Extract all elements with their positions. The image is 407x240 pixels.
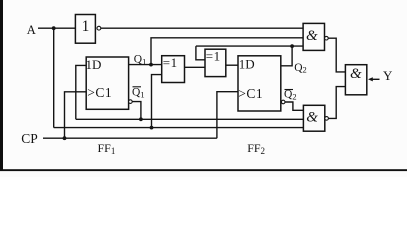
- and gate G6 box: [345, 65, 366, 95]
- svg-text:=1: =1: [163, 55, 178, 70]
- wire CP input: [43, 137, 217, 139]
- wire A branch up to XOR1 input: [152, 75, 162, 128]
- svg-text:Y: Y: [383, 68, 393, 83]
- label Q1-bar overline: [133, 86, 142, 88]
- wire inverter output A-bar to AND1: [101, 27, 303, 29]
- wire Q1 output to XOR1: [129, 64, 162, 66]
- flip-flop FF1 box: [86, 57, 128, 109]
- wire Q2-bar output to AND2: [285, 102, 303, 110]
- nand gate G4 box: [303, 23, 324, 50]
- svg-text:&: &: [350, 66, 362, 82]
- node CP junction: [63, 136, 67, 140]
- wire FF1 D input from Q1-bar bus: [76, 65, 86, 119]
- node A branch junction: [150, 126, 154, 130]
- wire Y output arrowhead: [368, 77, 373, 81]
- svg-text:&: &: [306, 109, 318, 125]
- svg-text:>C1: >C1: [87, 85, 112, 100]
- xor gate G2 box: [162, 56, 185, 83]
- wire XOR2 output to FF2 D: [226, 64, 238, 66]
- wire Y output with arrowhead: [372, 78, 380, 80]
- svg-text:CP: CP: [21, 131, 38, 146]
- svg-text:&: &: [306, 28, 318, 44]
- wire A bottom bus to AND2: [54, 127, 304, 129]
- svg-text:1: 1: [82, 18, 90, 35]
- node Q2 junction: [290, 44, 294, 48]
- node Q1-bar junction: [139, 117, 143, 121]
- svg-text:1D: 1D: [239, 56, 255, 71]
- wire Q1 up to AND1: [151, 38, 303, 65]
- node A junction: [52, 26, 56, 30]
- wire G4 output to G6: [328, 38, 345, 72]
- wire Q1-bar bottom bus to AND2: [76, 118, 304, 120]
- wire Q2 top line to XOR2 input: [196, 46, 205, 60]
- nand gate G5 box: [303, 105, 324, 131]
- wire Q2 output up: [281, 46, 292, 66]
- inverter G1 output bubble: [97, 26, 101, 30]
- wire G5 output to G6: [328, 87, 345, 119]
- wire XOR1 output to XOR2: [185, 66, 206, 68]
- wire Q1-bar output down: [132, 102, 141, 120]
- wire A vertical trunk: [53, 28, 55, 127]
- svg-text:A: A: [27, 23, 36, 37]
- inverter G1 box: [75, 15, 95, 44]
- flip-flop FF1 Q-bar output bubble: [129, 100, 133, 104]
- flip-flop FF2 box: [238, 56, 281, 111]
- node Q1 junction: [149, 63, 153, 67]
- svg-text:Q2: Q2: [294, 62, 307, 75]
- nand gate G5 output bubble: [325, 117, 329, 121]
- wire FF1 C1 clock input: [65, 92, 87, 138]
- nand gate G4 output bubble: [325, 36, 329, 40]
- svg-text:1D: 1D: [86, 57, 102, 72]
- xor gate G3 box: [205, 49, 226, 76]
- label Q2-bar overline: [285, 89, 294, 91]
- svg-text:=1: =1: [206, 48, 221, 63]
- svg-text:>C1: >C1: [238, 86, 263, 101]
- wire A input: [38, 27, 75, 29]
- wire Q2 top bus to AND1: [196, 45, 303, 47]
- wire FF2 C1 clock input from CP: [217, 92, 238, 139]
- flip-flop FF2 Q-bar output bubble: [281, 100, 285, 104]
